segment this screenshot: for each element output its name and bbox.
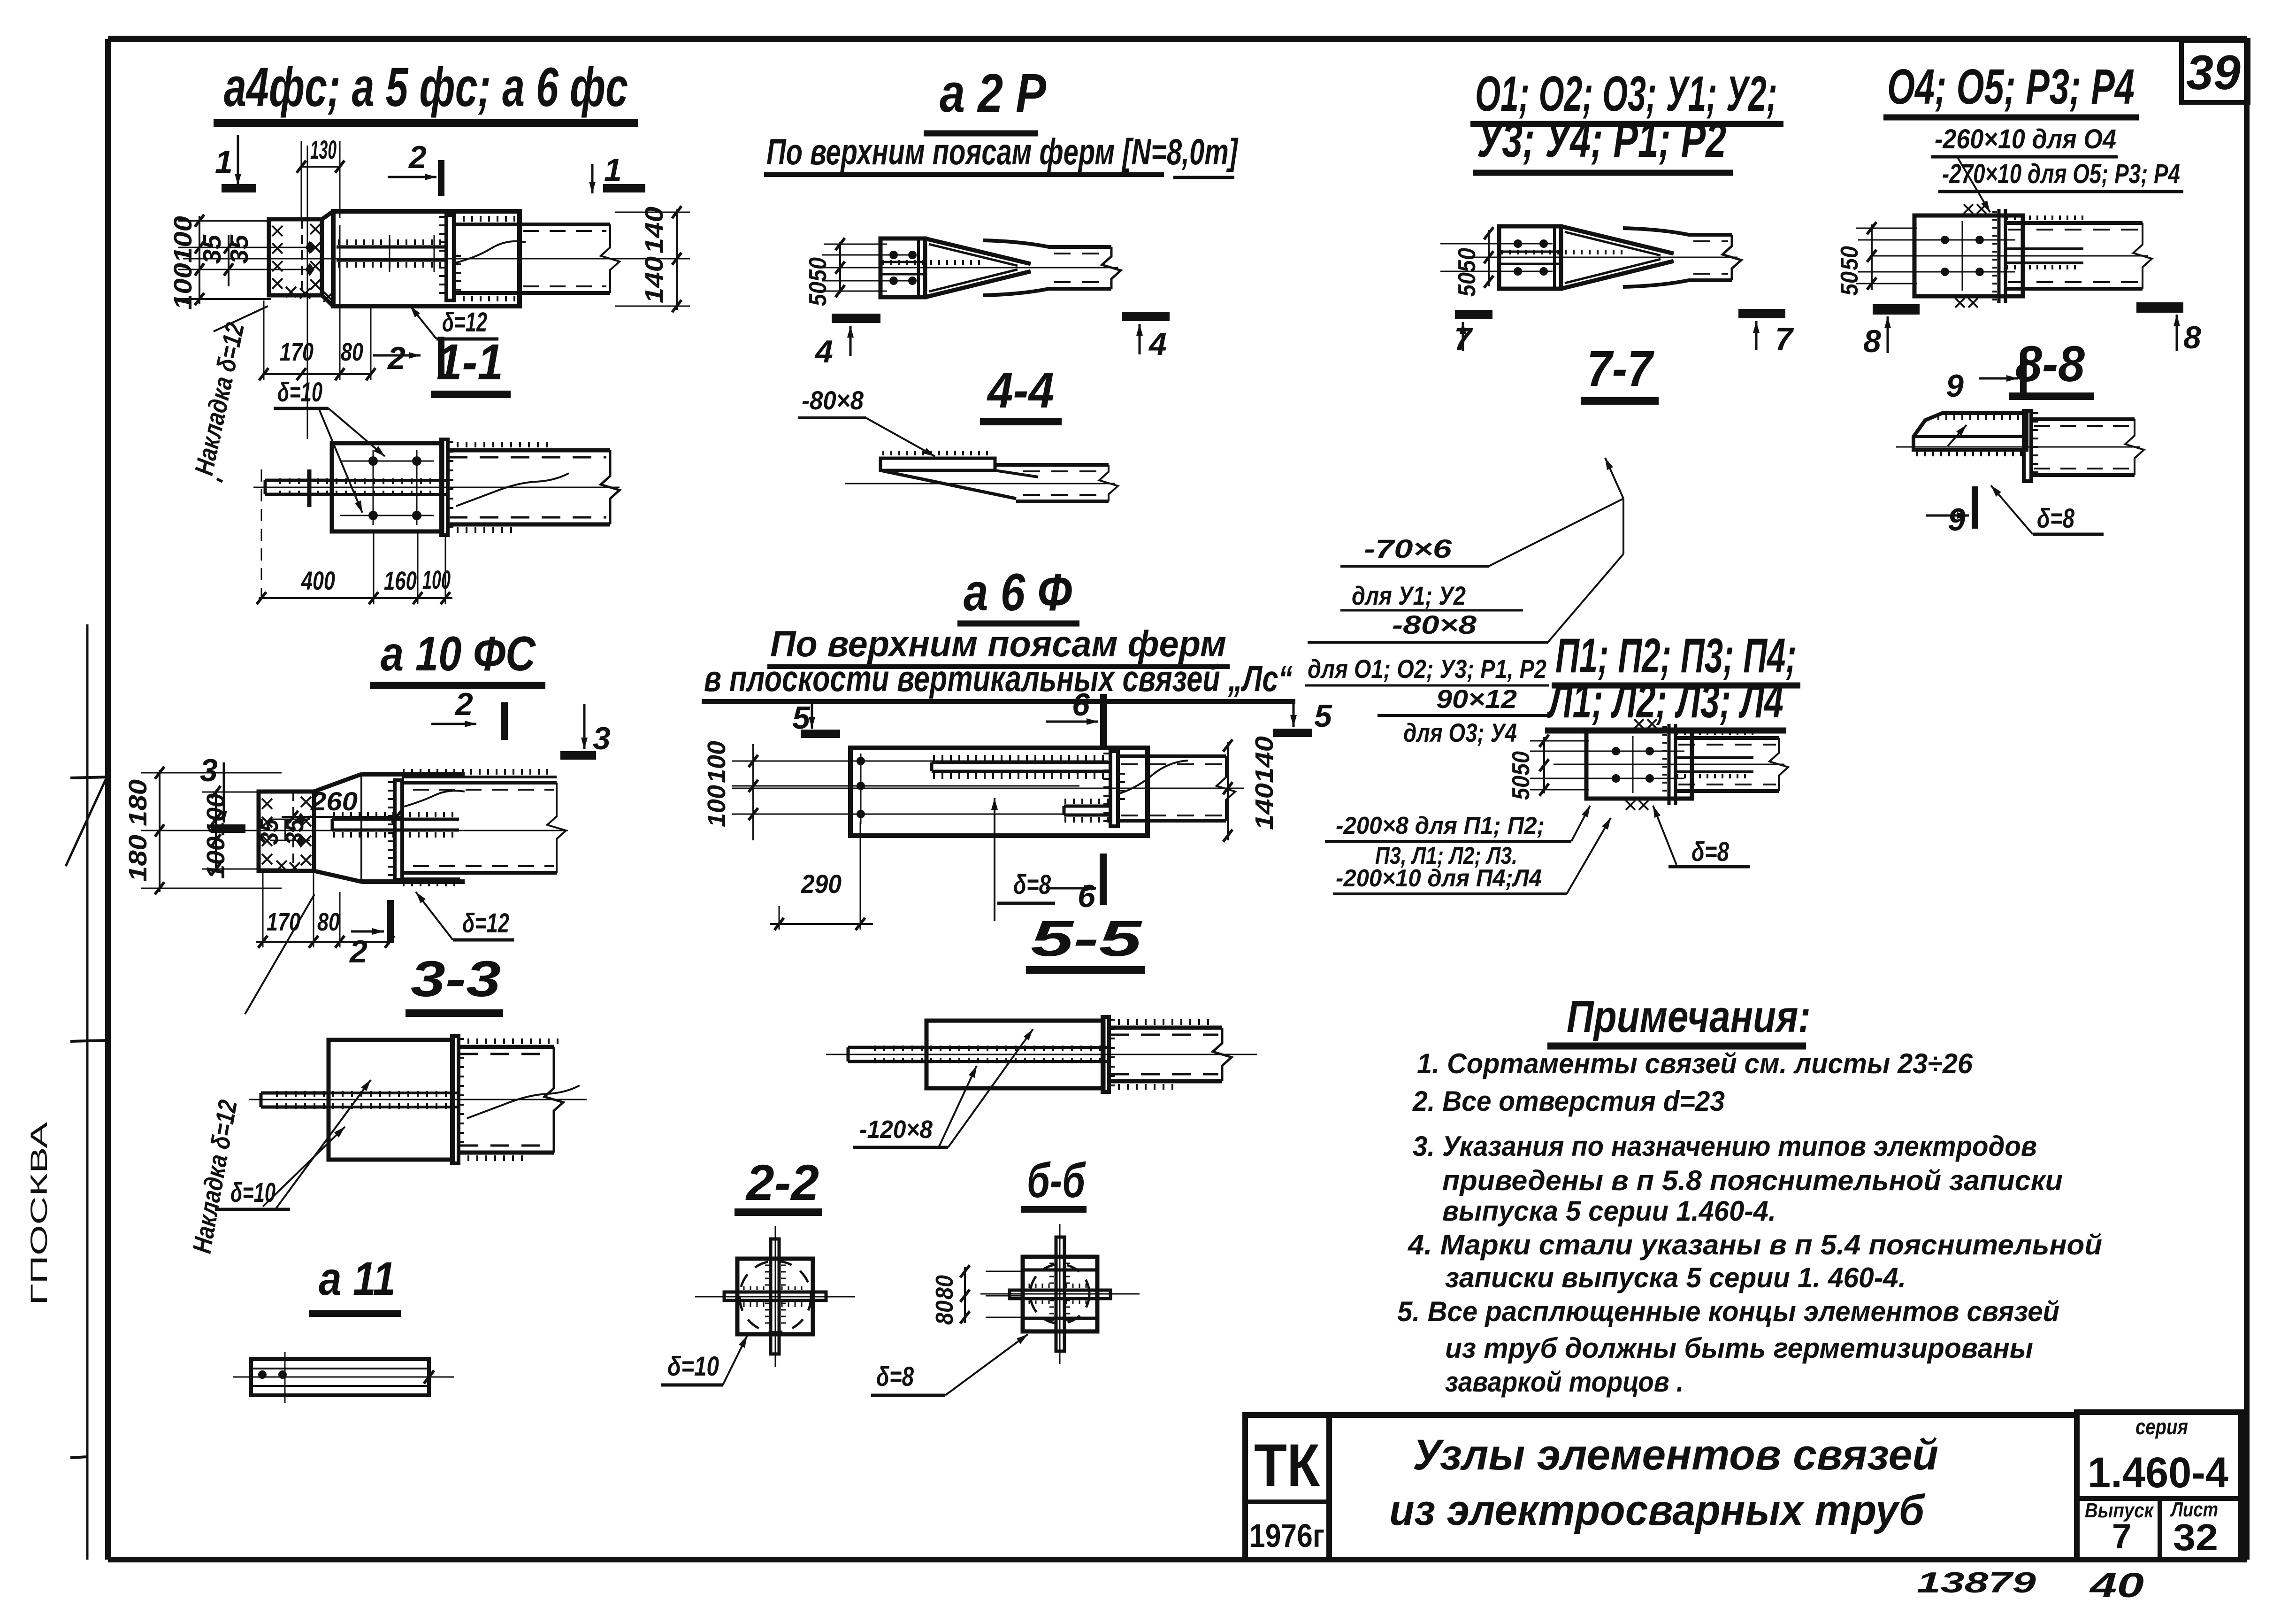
- svg-text:100: 100: [703, 741, 731, 783]
- svg-text:13879: 13879: [1917, 1567, 2036, 1599]
- svg-text:4: 4: [814, 334, 833, 369]
- svg-text:δ=8: δ=8: [1691, 837, 1730, 867]
- svg-text:3. Указания по назначению: 3. Указания по назначению типов электрод…: [1413, 1130, 2037, 1162]
- svg-text:δ=12: δ=12: [462, 908, 509, 938]
- svg-text:из труб должны быть г: из труб должны быть герметизированы: [1445, 1332, 2033, 1364]
- svg-text:1976г: 1976г: [1249, 1517, 1324, 1554]
- svg-text:а 10 ФС: а 10 ФС: [381, 627, 536, 681]
- svg-text:δ=8: δ=8: [876, 1361, 914, 1392]
- svg-text:6: 6: [1078, 878, 1096, 914]
- svg-text:140: 140: [640, 207, 668, 254]
- svg-text:-200×10 для П4;Л4: -200×10 для П4;Л4: [1336, 865, 1542, 892]
- svg-text:80: 80: [931, 1275, 958, 1300]
- svg-text:35: 35: [225, 234, 253, 264]
- svg-text:100: 100: [422, 565, 451, 594]
- svg-text:4. Марки стали указаны: 4. Марки стали указаны в п 5.4 пояснител…: [1408, 1229, 2102, 1261]
- svg-text:35: 35: [198, 234, 226, 264]
- svg-text:а 11: а 11: [319, 1253, 396, 1305]
- svg-text:1: 1: [215, 144, 233, 180]
- svg-text:О4; О5; Р3; Р4: О4; О5; Р3; Р4: [1887, 59, 2135, 115]
- svg-text:5. Все расплющенные концы: 5. Все расплющенные концы элементов связ…: [1397, 1296, 2059, 1327]
- svg-text:серия: серия: [2135, 1415, 2188, 1439]
- svg-text:8: 8: [1863, 323, 1881, 359]
- svg-text:140: 140: [1250, 736, 1278, 783]
- svg-text:1: 1: [604, 152, 622, 188]
- svg-text:140: 140: [1250, 783, 1278, 830]
- svg-text:2: 2: [349, 934, 367, 969]
- svg-text:80: 80: [317, 908, 340, 936]
- svg-text:50: 50: [1836, 246, 1863, 270]
- svg-text:4-4: 4-4: [987, 361, 1054, 418]
- svg-text:7: 7: [1775, 321, 1794, 357]
- svg-text:Л1; Л2; Л3; Л4: Л1; Л2; Л3; Л4: [1546, 674, 1783, 728]
- svg-text:δ=10: δ=10: [230, 1177, 276, 1208]
- svg-text:-80×8: -80×8: [802, 385, 864, 415]
- svg-text:записки выпуска 5 серии: записки выпуска 5 серии 1. 460-4.: [1445, 1262, 1906, 1293]
- svg-text:9: 9: [1948, 502, 1966, 538]
- svg-text:2: 2: [454, 686, 473, 722]
- svg-text:-120×8: -120×8: [859, 1115, 933, 1144]
- svg-text:100: 100: [169, 263, 197, 310]
- svg-text:100: 100: [703, 785, 731, 827]
- svg-text:170: 170: [280, 338, 314, 366]
- svg-text:-270×10 для О5; Р3; Р4: -270×10 для О5; Р3; Р4: [1942, 159, 2180, 189]
- svg-text:7: 7: [2112, 1517, 2131, 1556]
- svg-text:290: 290: [801, 869, 842, 899]
- svg-text:1.460-4: 1.460-4: [2088, 1449, 2228, 1497]
- svg-text:3: 3: [593, 721, 611, 756]
- svg-text:50: 50: [1454, 248, 1481, 272]
- svg-text:7-7: 7-7: [1587, 340, 1654, 397]
- svg-text:ТК: ТК: [1254, 1432, 1320, 1499]
- svg-text:4: 4: [1148, 326, 1167, 362]
- svg-text:для О3; У4: для О3; У4: [1403, 718, 1517, 747]
- svg-text:приведены в п 5.8 поясни: приведены в п 5.8 пояснительной записки: [1442, 1165, 2063, 1196]
- svg-text:35: 35: [255, 819, 283, 845]
- svg-text:80: 80: [931, 1300, 958, 1325]
- svg-text:δ=10: δ=10: [277, 377, 322, 408]
- svg-text:δ=12: δ=12: [442, 307, 487, 338]
- svg-text:32: 32: [2173, 1516, 2218, 1558]
- svg-text:для У1; У2: для У1; У2: [1352, 581, 1466, 610]
- svg-text:50: 50: [804, 282, 832, 306]
- svg-text:39: 39: [2186, 46, 2241, 100]
- svg-text:-260×10 для О4: -260×10 для О4: [1935, 124, 2116, 154]
- svg-text:а4фс; а 5 фс; а 6 фс: а4фс; а 5 фс; а 6 фс: [224, 56, 628, 118]
- svg-text:100: 100: [202, 837, 230, 879]
- svg-text:9: 9: [1946, 368, 1964, 404]
- svg-text:ГПОСКВА: ГПОСКВА: [26, 1122, 52, 1305]
- svg-text:170: 170: [267, 908, 300, 936]
- svg-text:50: 50: [1454, 272, 1481, 297]
- svg-text:40: 40: [2089, 1566, 2144, 1605]
- svg-text:50: 50: [804, 257, 832, 282]
- svg-text:для О1; О2; У3; Р1, Р2: для О1; О2; У3; Р1, Р2: [1308, 654, 1546, 684]
- svg-text:δ=8: δ=8: [1013, 869, 1051, 900]
- svg-text:заваркой торцов .: заваркой торцов .: [1445, 1366, 1684, 1398]
- svg-text:2: 2: [387, 340, 406, 376]
- svg-text:δ=8: δ=8: [2037, 503, 2075, 534]
- svg-text:6: 6: [1072, 687, 1090, 723]
- svg-text:35: 35: [281, 819, 309, 845]
- svg-text:2. Все отверстия d=23: 2. Все отверстия d=23: [1412, 1085, 1725, 1117]
- svg-text:3: 3: [200, 753, 218, 788]
- svg-text:Примечания:: Примечания:: [1567, 992, 1811, 1042]
- svg-text:-80×8: -80×8: [1392, 610, 1477, 639]
- svg-text:1-1: 1-1: [436, 333, 503, 390]
- svg-text:5: 5: [1314, 698, 1332, 734]
- svg-text:3-3: 3-3: [411, 950, 501, 1007]
- svg-text:260: 260: [310, 786, 358, 816]
- svg-text:180: 180: [124, 779, 152, 826]
- svg-text:160: 160: [384, 566, 417, 595]
- svg-text:50: 50: [1508, 751, 1535, 776]
- svg-text:400: 400: [301, 566, 335, 595]
- svg-text:2: 2: [408, 139, 427, 175]
- svg-text:5-5: 5-5: [1031, 910, 1143, 967]
- svg-text:выпуска 5 серии 1.460-4.: выпуска 5 серии 1.460-4.: [1442, 1195, 1776, 1227]
- svg-text:У3; У4; Р1; Р2: У3; У4; Р1; Р2: [1477, 112, 1726, 168]
- svg-text:2-2: 2-2: [745, 1154, 819, 1211]
- svg-text:100: 100: [169, 216, 197, 263]
- svg-text:из электросварных труб: из электросварных труб: [1389, 1486, 1925, 1534]
- svg-text:δ=10: δ=10: [667, 1351, 719, 1382]
- svg-text:90×12: 90×12: [1436, 684, 1517, 714]
- svg-text:140: 140: [640, 256, 668, 303]
- svg-text:50: 50: [1508, 776, 1535, 800]
- svg-text:а 2 Р: а 2 Р: [940, 62, 1047, 123]
- svg-text:1. Сортаменты связей с: 1. Сортаменты связей см. листы 23÷26: [1417, 1048, 1973, 1079]
- svg-text:130: 130: [310, 135, 337, 164]
- svg-text:7: 7: [1454, 321, 1473, 357]
- svg-text:-70×6: -70×6: [1364, 534, 1452, 563]
- svg-text:80: 80: [341, 338, 363, 366]
- svg-text:-200×8 для П1; П2;: -200×8 для П1; П2;: [1336, 812, 1545, 839]
- svg-text:180: 180: [124, 835, 152, 882]
- svg-text:б-б: б-б: [1027, 1154, 1086, 1208]
- svg-text:в плоскости вертикальных св: в плоскости вертикальных связей „Лс“: [704, 658, 1293, 699]
- svg-text:а 6 Ф: а 6 Ф: [964, 563, 1072, 622]
- svg-text:По верхним поясам ферм [N=8: По верхним поясам ферм [N=8,0т]: [766, 131, 1239, 172]
- svg-text:Узлы элементов связей: Узлы элементов связей: [1413, 1431, 1938, 1479]
- svg-text:8: 8: [2183, 320, 2201, 355]
